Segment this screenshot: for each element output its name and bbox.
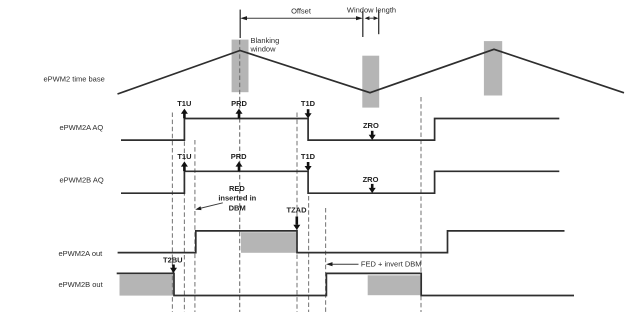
T1D arrow B <box>307 162 310 167</box>
svg-text:ePWM2A AQ: ePWM2A AQ <box>60 123 104 132</box>
offset left arrowhead <box>240 16 247 20</box>
window end tick <box>378 11 380 35</box>
ZRO arrow B <box>371 184 374 189</box>
ePWM2 time base triangle wave <box>118 49 625 94</box>
svg-text:T1U: T1U <box>177 99 191 108</box>
window length right arrowhead <box>374 16 379 20</box>
dashed line T2BU edge <box>171 113 173 313</box>
svg-text:T1D: T1D <box>301 152 316 161</box>
dashed line TZAD edge <box>296 113 298 313</box>
dashed line FED edge <box>325 208 327 312</box>
RED leader line <box>200 203 223 209</box>
svg-text:DBM: DBM <box>229 203 246 212</box>
dashed line window end <box>420 97 422 312</box>
ePWM2B out waveform <box>117 273 574 295</box>
svg-text:Offset: Offset <box>291 7 312 16</box>
RED leader arrowhead <box>195 206 201 210</box>
window length left arrowhead <box>365 16 370 20</box>
ePWM2B AQ waveform <box>121 171 559 193</box>
svg-text:T2BU: T2BU <box>163 255 183 264</box>
T1U arrow B <box>183 166 186 172</box>
T1U arrow A <box>183 113 186 119</box>
T1D arrow A <box>307 109 310 114</box>
dashed line PRD <box>239 40 241 312</box>
svg-text:T1D: T1D <box>301 99 316 108</box>
ZRO arrow A <box>371 131 374 136</box>
FED leader line <box>328 263 359 265</box>
svg-text:ePWM2B out: ePWM2B out <box>59 280 104 289</box>
svg-text:inserted in: inserted in <box>218 193 256 202</box>
svg-text:ZRO: ZRO <box>363 175 379 184</box>
FED leader arrowhead <box>326 262 333 266</box>
svg-text:RED: RED <box>229 184 245 193</box>
svg-text:ePWM2A out: ePWM2A out <box>59 249 104 258</box>
offset dimension line <box>246 17 357 19</box>
svg-text:T1U: T1U <box>177 152 191 161</box>
PRD arrow A <box>238 113 241 119</box>
grey FED region on ePWM2B out <box>368 275 421 295</box>
window length mid line <box>369 17 375 19</box>
dashed line RED edge <box>194 140 196 312</box>
ePWM2A out waveform <box>118 231 565 253</box>
ePWM2A AQ waveform <box>121 119 559 141</box>
T2BU arrow <box>172 265 175 269</box>
svg-text:TZAD: TZAD <box>287 205 308 214</box>
svg-text:FED + invert DBM: FED + invert DBM <box>361 260 422 269</box>
grey region on ePWM2B out left <box>120 275 174 296</box>
svg-text:ZRO: ZRO <box>363 121 379 130</box>
blanking window rect at first PRD peak <box>232 40 249 93</box>
svg-text:Blanking: Blanking <box>251 36 280 45</box>
grey RED region on ePWM2A out <box>241 232 296 253</box>
blanking window rect at second peak <box>484 41 502 95</box>
svg-text:ePWM2 time base: ePWM2 time base <box>44 75 105 84</box>
svg-text:window: window <box>250 45 277 54</box>
svg-text:PRD: PRD <box>231 99 247 108</box>
offset right arrowhead <box>356 16 363 20</box>
window start tick <box>362 11 364 37</box>
svg-text:PRD: PRD <box>231 152 247 161</box>
svg-text:Window length: Window length <box>347 5 396 14</box>
dashed line T1U edge <box>183 113 185 312</box>
offset dimension tick at PRD <box>239 10 241 38</box>
PRD arrow B <box>238 166 241 172</box>
blanking window rect at valley <box>362 56 379 108</box>
TZAD arrow <box>295 217 298 225</box>
dashed line T1D edge <box>308 196 310 312</box>
svg-text:ePWM2B AQ: ePWM2B AQ <box>60 176 104 185</box>
